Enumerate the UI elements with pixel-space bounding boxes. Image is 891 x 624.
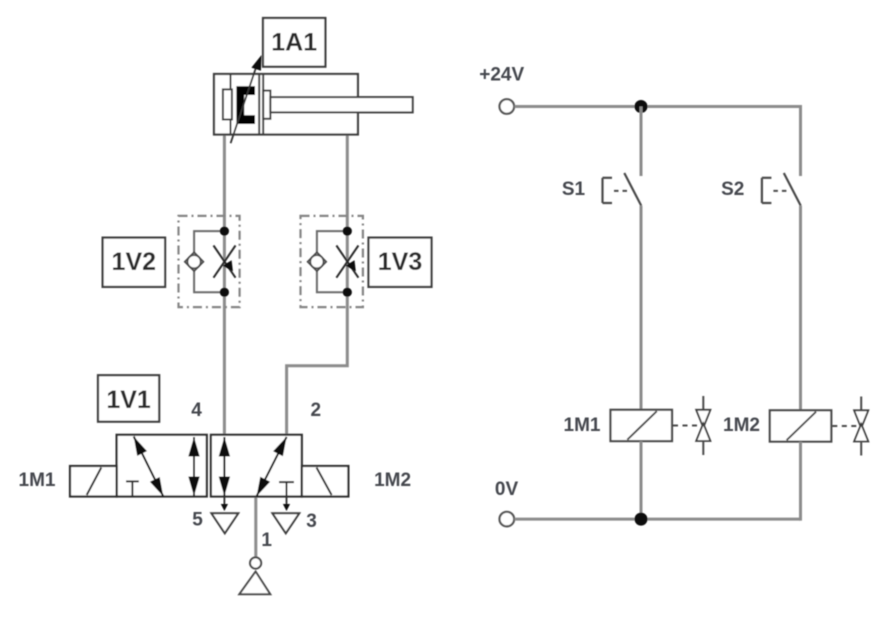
svg-text:2: 2 [311,400,322,421]
wire cylinder right port to 1V3 to valve port 2 [287,135,348,435]
wire port4 line (cylinder left port to valve) [223,135,226,435]
cylinder 1A1 [214,74,413,135]
svg-text:5: 5 [192,510,203,531]
wire branch2 middle [799,206,802,411]
wire branch2 lower [799,442,802,521]
valve symbol at 1M1 [696,396,710,455]
arrow right chamber vertical (4-5 path) [219,437,230,496]
svg-text:4: 4 [191,400,202,421]
arrow right chamber diagonal (1-2 path) [257,437,287,496]
svg-text:1A1: 1A1 [271,28,317,56]
svg-text:S1: S1 [562,179,586,200]
svg-text:1M2: 1M2 [723,415,760,436]
wire port1 line (valve to air source) [254,497,257,559]
coil 1M1 [611,410,673,441]
port number 2 [311,400,322,421]
label S2 [721,179,744,200]
label box 1V2 [103,238,166,287]
arrow left chamber vertical [188,437,199,496]
label 0V [495,479,519,500]
label S1 [562,179,586,200]
terminal +24V [500,99,515,114]
svg-text:0V: 0V [495,479,519,500]
label box 1V3 [369,238,432,287]
port number 1 [261,530,272,551]
terminal 0V [500,512,515,527]
svg-text:1V2: 1V2 [112,248,156,276]
port number 4 [191,400,202,421]
label 1M2 (coil) [723,415,760,436]
label +24V [479,64,524,85]
label box 1A1 [263,18,325,67]
svg-text:1M1: 1M1 [19,470,56,491]
valve 1V1 body left chamber [117,435,207,497]
svg-text:S2: S2 [721,179,744,200]
label 1M2 (valve) [374,470,411,491]
label 1M1 (valve) [19,470,56,491]
svg-text:1M2: 1M2 [374,470,411,491]
wire branch1 upper [640,107,643,177]
port number 3 [306,511,317,532]
wire bottom rail [514,518,800,521]
label 1M1 (coil) [564,415,601,436]
arrow left chamber diagonal [134,437,164,497]
svg-text:1V3: 1V3 [378,248,422,276]
valve symbol at 1M2 [854,397,868,456]
flow control valve 1V3 [301,216,363,307]
exhaust arrow port 3 [283,497,290,512]
wire top rail [514,105,800,108]
coil 1M2 [770,410,832,441]
valve 1V1 body right chamber [211,435,302,497]
dashed link 1M1 [673,425,697,427]
junction top [635,100,648,113]
flow control valve 1V2 [179,216,240,307]
exhaust triangle port 5 [211,513,238,533]
compressed air source [239,557,270,594]
wire branch2 upper [799,105,802,176]
switch S2 [762,173,801,206]
exhaust triangle port 3 [272,513,299,533]
solenoid 1M2 (right actuator) [302,466,349,497]
junction bottom [635,513,648,526]
svg-text:1: 1 [261,530,272,551]
blocked port T left chamber [126,481,139,495]
label box 1V1 [98,375,159,422]
svg-text:+24V: +24V [479,64,524,85]
wire branch1 middle [640,206,643,410]
exhaust arrow port 5 [221,497,228,512]
solenoid 1M1 (left actuator) [70,466,117,497]
blocked port T right chamber (port 3) [279,482,294,496]
leader arrow to 1A1 [231,55,262,143]
port number 5 [192,510,203,531]
svg-text:1M1: 1M1 [564,415,601,436]
svg-text:3: 3 [306,511,317,532]
switch S1 [603,173,642,206]
svg-text:1V1: 1V1 [106,386,151,414]
dashed link 1M2 [832,425,856,427]
wire branch1 lower [640,441,643,519]
